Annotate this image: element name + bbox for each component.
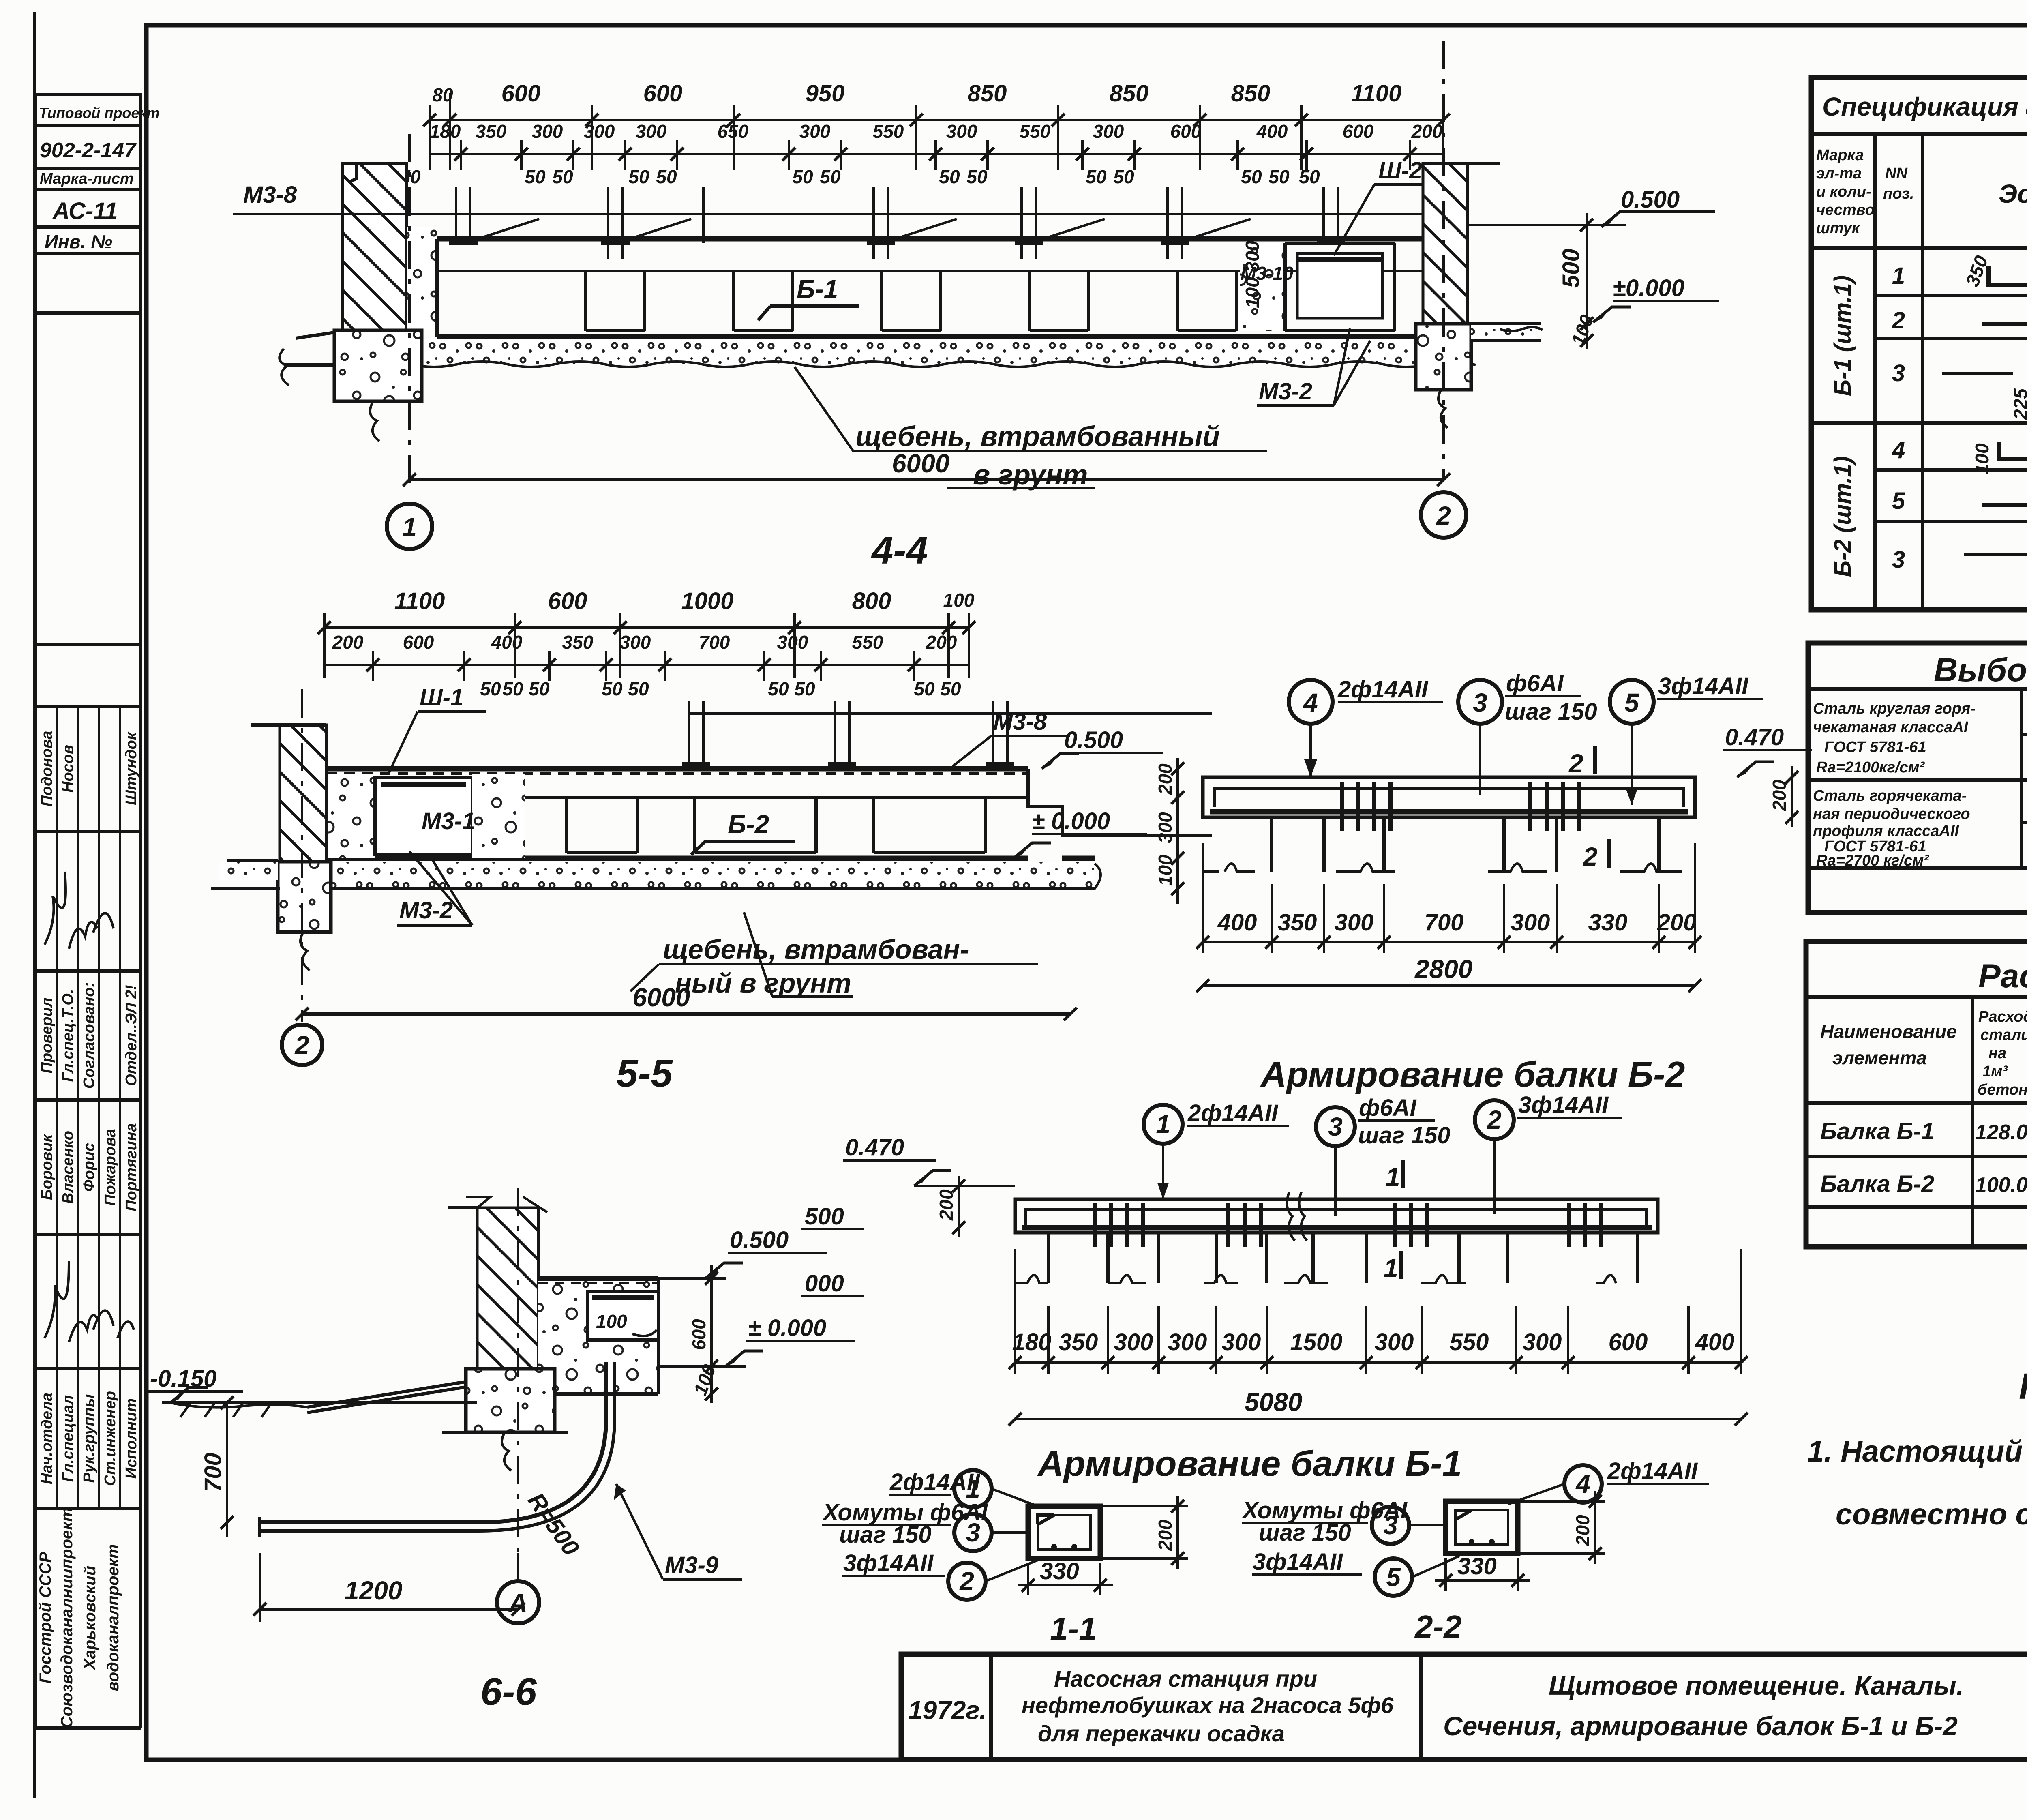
svg-text:1: 1	[1386, 1162, 1400, 1192]
svg-text:1: 1	[1892, 263, 1905, 289]
svg-text:М3-8: М3-8	[993, 709, 1047, 735]
svg-text:± 0.000: ± 0.000	[1032, 808, 1110, 834]
svg-text:100: 100	[943, 590, 975, 611]
svg-text:300: 300	[946, 121, 977, 142]
svg-text:4: 4	[1575, 1469, 1590, 1498]
svg-text:0.470: 0.470	[1725, 724, 1784, 750]
svg-text:650: 650	[718, 121, 749, 142]
svg-text:Типовой проект: Типовой проект	[39, 105, 160, 121]
svg-text:Эскиз: Эскиз	[1999, 179, 2027, 208]
svg-text:Rа=2700 кг/см²: Rа=2700 кг/см²	[1816, 852, 1929, 869]
svg-text:Rа=2100кг/см²: Rа=2100кг/см²	[1816, 759, 1925, 776]
svg-text:М3-2: М3-2	[1259, 378, 1312, 405]
svg-text:128.0: 128.0	[1975, 1121, 2027, 1144]
svg-text:850: 850	[968, 80, 1007, 107]
svg-text:совместно с листом АС-10.: совместно с листом АС-10.	[1836, 1497, 2027, 1531]
svg-text:180: 180	[430, 121, 461, 142]
svg-text:6000: 6000	[892, 449, 949, 478]
svg-text:0.500: 0.500	[730, 1227, 789, 1253]
svg-text:М3-9: М3-9	[665, 1552, 718, 1578]
svg-text:3: 3	[1892, 360, 1905, 386]
svg-text:200: 200	[1572, 1515, 1593, 1546]
svg-text:50: 50	[1268, 166, 1290, 187]
svg-text:Отдел..ЭЛ 2!: Отдел..ЭЛ 2!	[123, 985, 140, 1086]
svg-text:50: 50	[480, 678, 501, 699]
svg-text:ГОСТ 5781-61: ГОСТ 5781-61	[1824, 739, 1926, 756]
svg-text:50: 50	[939, 166, 960, 187]
svg-text:ф6АI: ф6АI	[1506, 670, 1564, 697]
svg-text:50: 50	[794, 678, 815, 699]
svg-text:штук: штук	[1816, 220, 1860, 237]
svg-text:2ф14АII: 2ф14АII	[1607, 1458, 1698, 1484]
svg-text:330: 330	[1457, 1553, 1497, 1580]
svg-text:Ш-1: Ш-1	[420, 684, 463, 711]
svg-text:1: 1	[402, 512, 417, 542]
svg-text:50: 50	[820, 166, 841, 187]
svg-text:3: 3	[966, 1518, 980, 1547]
svg-text:50: 50	[552, 166, 573, 187]
svg-text:100.0: 100.0	[1975, 1173, 2027, 1197]
svg-text:шаг 150: шаг 150	[1358, 1122, 1451, 1149]
svg-text:350: 350	[476, 121, 507, 142]
svg-text:300: 300	[532, 121, 563, 142]
svg-text:0.470: 0.470	[845, 1134, 904, 1161]
svg-text:50: 50	[768, 678, 789, 699]
svg-text:щебень, втрамбован-: щебень, втрамбован-	[663, 934, 969, 965]
svg-text:чекатаная классаАI: чекатаная классаАI	[1813, 719, 1969, 736]
svg-text:М3-10: М3-10	[1241, 263, 1294, 284]
svg-text:4: 4	[1303, 688, 1318, 717]
svg-text:Носов: Носов	[60, 745, 77, 793]
svg-text:200: 200	[926, 632, 957, 653]
svg-text:3: 3	[1473, 688, 1487, 717]
svg-text:0.500: 0.500	[1621, 187, 1680, 213]
svg-text:600: 600	[1609, 1329, 1648, 1355]
svg-text:600: 600	[643, 80, 683, 107]
svg-text:200: 200	[936, 1189, 957, 1221]
svg-text:Балка Б-1: Балка Б-1	[1820, 1118, 1934, 1145]
svg-text:1. Настоящий чертёж рассматрив: 1. Настоящий чертёж рассматривать	[1807, 1434, 2027, 1468]
svg-text:50: 50	[656, 166, 677, 187]
svg-text:50: 50	[529, 678, 550, 699]
svg-text:550: 550	[873, 121, 904, 142]
svg-text:300: 300	[636, 121, 667, 142]
svg-text:800: 800	[852, 588, 891, 614]
svg-text:1м³: 1м³	[1982, 1063, 2008, 1080]
svg-text:200: 200	[1657, 909, 1697, 936]
svg-text:ная периодического: ная периодического	[1813, 806, 1970, 823]
svg-text:0.500: 0.500	[1064, 727, 1123, 753]
svg-text:щебень, втрамбованный: щебень, втрамбованный	[855, 420, 1220, 452]
svg-text:3ф14АII: 3ф14АII	[1518, 1092, 1609, 1118]
svg-text:1972г.: 1972г.	[908, 1696, 986, 1725]
svg-text:Проверил: Проверил	[39, 998, 56, 1074]
svg-text:50: 50	[602, 678, 623, 699]
svg-text:Ст.инженер: Ст.инженер	[102, 1391, 119, 1486]
svg-text:5: 5	[1892, 488, 1905, 514]
svg-text:350: 350	[1278, 909, 1317, 936]
svg-text:Ш-2: Ш-2	[1378, 157, 1422, 184]
svg-text:Сталь горячеката-: Сталь горячеката-	[1813, 787, 1967, 804]
svg-text:200: 200	[1155, 1520, 1176, 1551]
svg-text:Пожарова: Пожарова	[102, 1129, 119, 1206]
svg-text:на: на	[1988, 1045, 2006, 1062]
svg-text:2: 2	[959, 1567, 974, 1596]
svg-text:± 0.000: ± 0.000	[748, 1315, 826, 1341]
svg-text:300: 300	[1335, 909, 1374, 936]
svg-text:5: 5	[1386, 1563, 1401, 1592]
svg-text:50: 50	[914, 678, 935, 699]
svg-text:550: 550	[1020, 121, 1051, 142]
svg-text:Госстрой СССР: Госстрой СССР	[36, 1552, 54, 1683]
svg-text:Гл.спец.Т.О.: Гл.спец.Т.О.	[60, 989, 77, 1082]
svg-text:бетона: бетона	[1978, 1081, 2027, 1098]
svg-text:200: 200	[1769, 780, 1790, 811]
svg-text:180: 180	[1012, 1329, 1052, 1355]
svg-text:300: 300	[584, 121, 615, 142]
svg-text:2800: 2800	[1414, 954, 1472, 984]
svg-text:Штундок: Штундок	[123, 731, 140, 805]
svg-text:Б-1: Б-1	[797, 274, 838, 304]
svg-text:Сталь круглая горя-: Сталь круглая горя-	[1813, 700, 1976, 717]
svg-text:2: 2	[1583, 842, 1598, 871]
svg-text:Расход материалоб: Расход материалоб	[1978, 958, 2027, 995]
svg-text:6-6: 6-6	[480, 1670, 537, 1713]
svg-text:для перекачки осадка: для перекачки осадка	[1038, 1721, 1285, 1746]
svg-text:Насосная станция при: Насосная станция при	[1054, 1666, 1317, 1691]
svg-text:М3-2: М3-2	[399, 897, 453, 924]
svg-text:330: 330	[1040, 1558, 1079, 1584]
svg-text:400: 400	[1256, 121, 1288, 142]
svg-text:500: 500	[1558, 249, 1584, 288]
svg-text:в грунт: в грунт	[973, 459, 1088, 491]
svg-text:700: 700	[699, 632, 730, 653]
svg-text:200: 200	[332, 632, 364, 653]
svg-text:Власенко: Власенко	[60, 1131, 77, 1204]
svg-text:поз.: поз.	[1883, 185, 1914, 202]
svg-text:эл-та: эл-та	[1816, 165, 1862, 182]
svg-text:Марка: Марка	[1816, 147, 1864, 164]
svg-text:330: 330	[1588, 909, 1628, 936]
svg-text:Примечание:: Примечание:	[2019, 1366, 2027, 1407]
svg-text:2ф14АII: 2ф14АII	[1337, 676, 1429, 703]
svg-text:350: 350	[1059, 1329, 1098, 1355]
svg-text:3: 3	[1892, 547, 1905, 573]
svg-text:50: 50	[1241, 166, 1262, 187]
svg-text:850: 850	[1231, 80, 1271, 107]
svg-text:элемента: элемента	[1832, 1047, 1927, 1068]
svg-text:М3-8: М3-8	[243, 182, 297, 208]
svg-text:5-5: 5-5	[616, 1052, 673, 1095]
svg-text:и коли-: и коли-	[1816, 183, 1871, 200]
svg-text:300: 300	[1511, 909, 1550, 936]
svg-text:50: 50	[502, 678, 523, 699]
svg-text:профиля классаАII: профиля классаАII	[1813, 823, 1959, 840]
svg-text:50: 50	[628, 678, 649, 699]
svg-text:А: А	[508, 1588, 527, 1618]
svg-text:1: 1	[1384, 1254, 1398, 1283]
svg-text:стали: стали	[1980, 1027, 2027, 1044]
svg-text:3ф14АII: 3ф14АII	[1658, 673, 1749, 699]
svg-text:М3-1: М3-1	[422, 808, 475, 834]
svg-text:4-4: 4-4	[871, 529, 928, 572]
svg-text:100: 100	[1155, 855, 1176, 886]
svg-text:Армирование балки Б-1: Армирование балки Б-1	[1037, 1443, 1462, 1483]
svg-text:Щитовое помещение. Каналы.: Щитовое помещение. Каналы.	[1549, 1670, 1964, 1700]
svg-text:550: 550	[852, 632, 883, 653]
svg-text:Рук.группы: Рук.группы	[81, 1394, 98, 1483]
svg-text:80: 80	[432, 84, 453, 105]
svg-text:50: 50	[628, 166, 649, 187]
svg-text:Марка-лист: Марка-лист	[40, 170, 134, 187]
svg-text:2: 2	[1487, 1105, 1502, 1134]
svg-text:400: 400	[491, 632, 523, 653]
svg-text:000: 000	[805, 1270, 844, 1297]
svg-text:4: 4	[1892, 437, 1905, 463]
svg-text:Армирование балки Б-2: Армирование балки Б-2	[1260, 1054, 1685, 1094]
svg-text:Сечения, армирование балок Б-1: Сечения, армирование балок Б-1 и Б-2	[1443, 1711, 1958, 1741]
svg-text:300: 300	[1168, 1329, 1207, 1355]
svg-text:50: 50	[940, 678, 961, 699]
svg-text:1000: 1000	[681, 588, 733, 614]
svg-text:Б-1 (шт.1): Б-1 (шт.1)	[1830, 275, 1856, 396]
svg-text:шаг 150: шаг 150	[1259, 1520, 1351, 1546]
svg-text:300: 300	[1114, 1329, 1153, 1355]
svg-text:600: 600	[501, 80, 541, 107]
svg-text:3ф14АII: 3ф14АII	[1253, 1549, 1343, 1575]
svg-text:225: 225	[2010, 388, 2027, 420]
svg-text:2ф14АII: 2ф14АII	[1187, 1100, 1279, 1126]
svg-text:50: 50	[525, 166, 546, 187]
svg-text:600: 600	[1170, 121, 1202, 142]
svg-text:1500: 1500	[1290, 1329, 1342, 1355]
svg-text:АС-11: АС-11	[52, 198, 118, 224]
svg-text:50: 50	[1086, 166, 1107, 187]
svg-text:Харьковский: Харьковский	[81, 1566, 99, 1670]
svg-text:300: 300	[777, 632, 808, 653]
svg-text:2: 2	[1436, 501, 1451, 530]
svg-text:1100: 1100	[394, 588, 445, 614]
svg-text:200: 200	[1155, 763, 1176, 795]
svg-text:Балка Б-2: Балка Б-2	[1820, 1171, 1934, 1197]
svg-text:нефтелобушках на 2насоса 5ф6: нефтелобушках на 2насоса 5ф6	[1022, 1692, 1394, 1718]
svg-text:100: 100	[1971, 443, 1993, 474]
svg-text:Союзводоканалниипроект: Союзводоканалниипроект	[58, 1507, 76, 1728]
svg-text:5080: 5080	[1245, 1387, 1302, 1417]
svg-text:±0.000: ±0.000	[1613, 275, 1684, 301]
svg-text:Исполнит: Исполнит	[123, 1398, 140, 1479]
svg-text:500: 500	[805, 1203, 844, 1230]
svg-text:шаг 150: шаг 150	[839, 1522, 932, 1548]
svg-text:5: 5	[1624, 688, 1639, 717]
svg-text:Гл.специал: Гл.специал	[60, 1395, 77, 1482]
svg-text:водоканалпроект: водоканалпроект	[104, 1544, 122, 1691]
svg-text:300: 300	[799, 121, 831, 142]
svg-text:350: 350	[562, 632, 594, 653]
svg-text:902-2-147: 902-2-147	[40, 139, 137, 162]
svg-text:1-1: 1-1	[1050, 1611, 1097, 1647]
svg-text:600: 600	[403, 632, 434, 653]
svg-text:50: 50	[1299, 166, 1320, 187]
svg-text:50: 50	[792, 166, 813, 187]
svg-text:шаг 150: шаг 150	[1505, 699, 1597, 725]
svg-text:3ф14АII: 3ф14АII	[843, 1550, 934, 1576]
svg-text:700: 700	[1425, 909, 1464, 936]
svg-text:600: 600	[1343, 121, 1374, 142]
svg-text:Боровик: Боровик	[39, 1134, 56, 1200]
svg-text:6000: 6000	[632, 983, 690, 1012]
svg-text:400: 400	[1217, 909, 1257, 936]
svg-text:300: 300	[1375, 1329, 1414, 1355]
svg-text:300: 300	[1093, 121, 1124, 142]
svg-text:100: 100	[596, 1311, 627, 1332]
svg-text:2: 2	[1892, 307, 1905, 334]
svg-text:3: 3	[1383, 1511, 1398, 1540]
svg-text:50: 50	[1113, 166, 1134, 187]
svg-text:400: 400	[1695, 1329, 1735, 1355]
svg-text:2: 2	[294, 1031, 309, 1060]
svg-text:300: 300	[1222, 1329, 1261, 1355]
svg-text:1: 1	[1156, 1110, 1170, 1139]
svg-text:850: 850	[1110, 80, 1149, 107]
svg-text:600: 600	[548, 588, 587, 614]
svg-text:Нач.отдела: Нач.отдела	[39, 1393, 56, 1484]
svg-text:2: 2	[1568, 749, 1583, 778]
svg-text:Б-2 (шт.1): Б-2 (шт.1)	[1830, 456, 1856, 577]
svg-text:300: 300	[1523, 1329, 1562, 1355]
svg-text:Б-2: Б-2	[728, 810, 769, 839]
svg-text:NN: NN	[1885, 165, 1908, 182]
svg-text:Спецификация арм...уры на 1эле: Спецификация арм...уры на 1элемент	[1822, 92, 2027, 121]
svg-text:Согласовано:: Согласовано:	[81, 982, 98, 1089]
svg-text:950: 950	[806, 80, 845, 107]
svg-text:550: 550	[1450, 1329, 1489, 1355]
svg-text:Инв. №: Инв. №	[45, 231, 112, 252]
svg-text:2-2: 2-2	[1414, 1609, 1462, 1645]
svg-text:700: 700	[200, 1453, 226, 1492]
svg-text:Портягина: Портягина	[123, 1123, 140, 1211]
svg-text:300: 300	[1155, 812, 1176, 843]
svg-text:чество: чество	[1816, 202, 1875, 219]
svg-text:600: 600	[688, 1319, 709, 1350]
svg-text:1100: 1100	[1351, 80, 1402, 107]
svg-text:Форис: Форис	[81, 1143, 98, 1192]
svg-text:Подонова: Подонова	[39, 731, 56, 807]
svg-text:1200: 1200	[345, 1576, 402, 1605]
svg-text:200: 200	[1411, 121, 1443, 142]
svg-text:50: 50	[966, 166, 988, 187]
svg-text:Выборка арматуры ни лист: Выборка арматуры ни лист	[1934, 652, 2027, 688]
svg-text:300: 300	[620, 632, 651, 653]
svg-text:Наименование: Наименование	[1820, 1021, 1957, 1042]
svg-text:Расход: Расход	[1978, 1008, 2027, 1025]
svg-text:3: 3	[1328, 1112, 1343, 1141]
svg-text:ф6АI: ф6АI	[1359, 1095, 1417, 1121]
